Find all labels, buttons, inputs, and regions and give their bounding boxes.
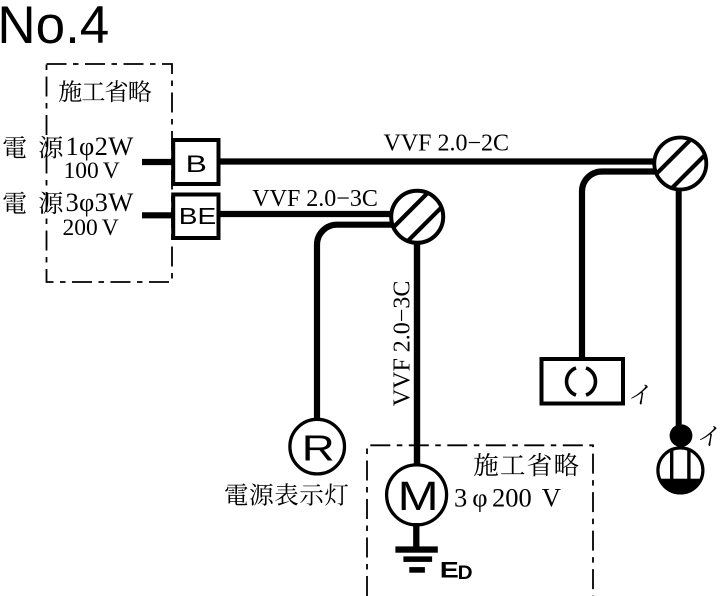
label イ (switch box) [630, 385, 648, 405]
label 施工省略 (source side) [59, 80, 151, 102]
svg-text:M: M [398, 473, 439, 519]
svg-text:1φ2W: 1φ2W [66, 131, 134, 161]
svg-text:BE: BE [179, 204, 216, 229]
dashed box 施工省略 (motor side, open at bottom) [367, 445, 593, 596]
motor M [387, 465, 447, 525]
svg-text:VVF 2.0−3C: VVF 2.0−3C [390, 281, 416, 407]
ground ED [395, 546, 437, 552]
svg-text:VVF 2.0−2C: VVF 2.0−2C [384, 130, 510, 156]
label 施工省略 (motor side) [474, 453, 579, 476]
switch イ box (ceiling rosette, square type) [542, 359, 624, 404]
label イ (pendant lamp) [699, 426, 717, 446]
wire: B to junction box (top) VVF 2.0-2C [218, 158, 658, 164]
junction box (middle, VVF joint) [391, 191, 443, 243]
svg-text:No.4: No.4 [0, 0, 109, 55]
wire: source stub to BE [142, 212, 173, 218]
( ) symbol inside [567, 368, 596, 395]
wire: middle junction down to motor M [414, 240, 420, 466]
pendant lamp with switch dot [670, 424, 693, 447]
dashed box 施工省略 (source side) [47, 64, 173, 282]
wire: top junction down to pendant lamp [676, 185, 682, 428]
svg-text:3φ3W: 3φ3W [66, 187, 134, 217]
label 電源表示灯 [225, 483, 348, 505]
wire: top junction to switch イ (with rounded corner) [582, 172, 658, 360]
svg-text:E: E [440, 559, 459, 583]
svg-text:200V: 200V [63, 215, 119, 241]
label 電源 3φ3W [3, 192, 62, 215]
svg-text:B: B [186, 151, 207, 177]
wire: BE to junction box (middle) VVF 2.0-3C [218, 211, 394, 217]
svg-text:D: D [458, 563, 473, 584]
wire: M to ground [413, 523, 419, 548]
label 電源 1φ2W [3, 136, 62, 159]
breaker BE box [173, 195, 218, 239]
wire: middle junction to lamp R (with rounded corner) [317, 225, 394, 420]
breaker B box [173, 140, 218, 184]
svg-text:R: R [302, 428, 335, 469]
lamp R (power indicator) [290, 419, 345, 474]
wire: source stub to B [142, 159, 173, 165]
svg-text:VVF 2.0−3C: VVF 2.0−3C [252, 186, 378, 212]
junction box (top right, VVF joint) [654, 138, 706, 190]
svg-text:100V: 100V [64, 158, 120, 184]
